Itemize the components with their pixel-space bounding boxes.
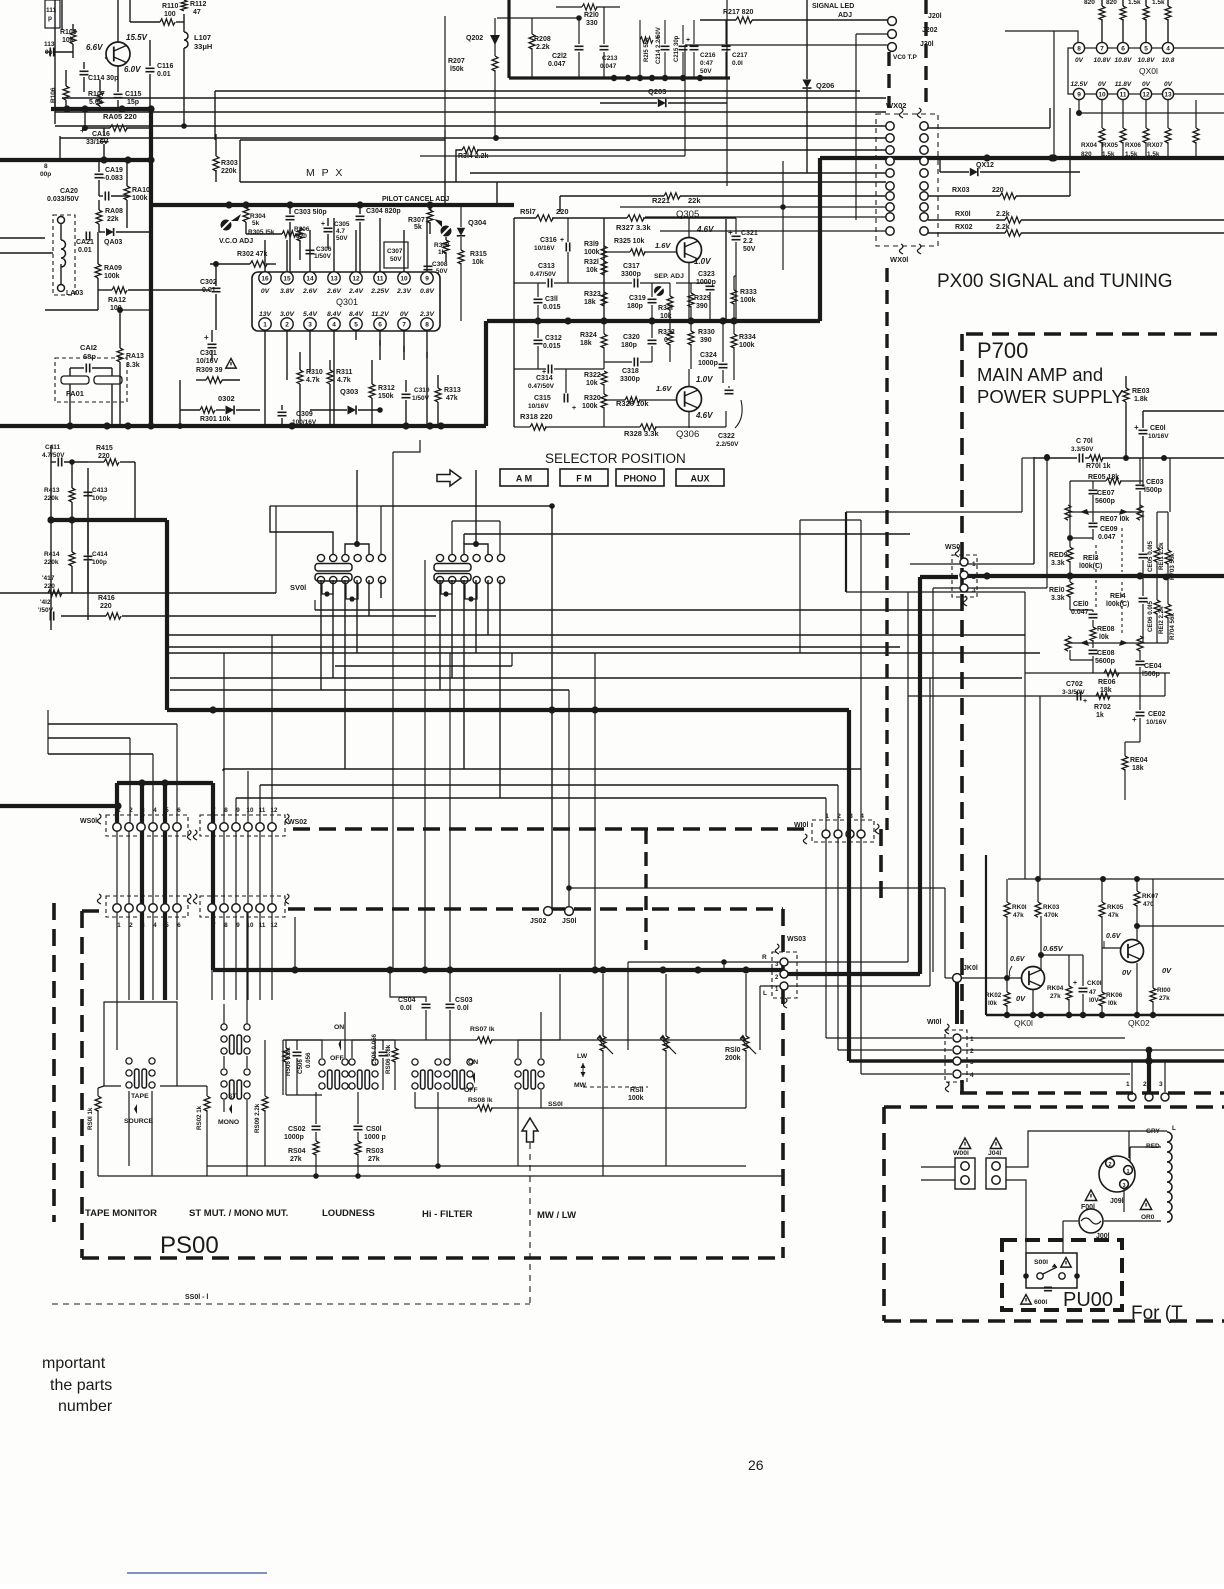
svg-text:QX12: QX12 [976,162,994,169]
svg-text:113: 113 [44,41,55,48]
svg-text:4.6V: 4.6V [695,411,713,420]
svg-text:220k: 220k [44,559,59,566]
svg-text:9: 9 [425,276,429,283]
svg-text:CS03: CS03 [455,997,473,1004]
svg-text:0.056: 0.056 [305,1052,312,1068]
svg-text:18k: 18k [584,299,596,306]
svg-text:JS0l: JS0l [562,918,576,925]
svg-text:10.8V: 10.8V [1115,57,1133,64]
svg-text:R309 39: R309 39 [196,367,223,374]
svg-text:1.8k: 1.8k [1134,396,1148,403]
svg-text:220k: 220k [221,168,237,175]
svg-text:REl1 2.2k: REl1 2.2k [1158,542,1165,570]
svg-text:220: 220 [100,603,112,610]
svg-text:R320: R320 [584,395,601,402]
svg-text:RS06 6.8k: RS06 6.8k [385,1044,392,1074]
svg-text:6.0V: 6.0V [124,65,141,74]
svg-text:0.0l: 0.0l [732,60,743,67]
svg-text:10: 10 [400,276,408,283]
svg-text:2.6V: 2.6V [326,288,342,295]
svg-text:+: + [1134,423,1139,432]
svg-text:l0k: l0k [1099,634,1109,641]
svg-text:SIGNAL LED: SIGNAL LED [812,3,854,10]
svg-text:C216: C216 [700,52,716,59]
svg-text:C414: C414 [92,551,108,558]
svg-text:ON: ON [334,1024,344,1031]
svg-text:11.2V: 11.2V [371,311,390,318]
svg-text:C317: C317 [623,263,640,270]
svg-text:180p: 180p [621,342,637,349]
svg-text:Q206: Q206 [816,81,834,90]
svg-text:3.3k: 3.3k [1051,595,1065,602]
svg-text:1: 1 [970,1036,974,1043]
svg-text:5k: 5k [252,220,260,227]
svg-text:C315: C315 [534,395,551,402]
svg-text:RA10: RA10 [132,187,150,194]
svg-text:100k: 100k [584,249,600,256]
svg-text:WS03: WS03 [787,936,806,943]
svg-text:C324: C324 [700,352,717,359]
svg-text:100: 100 [164,11,176,18]
svg-text:7: 7 [402,322,406,329]
svg-text:1/50V: 1/50V [412,395,430,402]
svg-text:WS02: WS02 [288,819,307,826]
svg-text:RE07 l0k: RE07 l0k [1100,516,1129,523]
svg-text:LA03: LA03 [66,290,83,297]
svg-text:CS0l: CS0l [366,1126,382,1133]
svg-text:100k: 100k [582,403,598,410]
svg-text:ADJ: ADJ [838,12,852,19]
svg-text:50V: 50V [743,246,756,253]
svg-text:100p: 100p [92,559,107,566]
svg-text:l500p: l500p [1144,487,1162,494]
svg-text:1000p: 1000p [284,1134,304,1141]
svg-text:R208: R208 [534,36,551,43]
svg-text:RA12: RA12 [108,297,126,304]
svg-text:27k: 27k [1050,993,1061,1000]
svg-text:L: L [763,990,767,997]
svg-text:0.6V: 0.6V [1010,956,1026,963]
svg-text:5: 5 [165,922,169,929]
svg-text:3.3/50V: 3.3/50V [1071,446,1094,453]
svg-text:RK06: RK06 [1106,992,1123,999]
svg-text:RX03: RX03 [952,187,970,194]
svg-text:CA21: CA21 [76,239,94,246]
svg-text:F M: F M [576,474,592,484]
svg-text:+: + [204,333,209,342]
svg-text:MW / LW: MW / LW [537,1210,576,1221]
svg-text:R301 10k: R301 10k [200,416,230,423]
svg-text:Rl00: Rl00 [1157,987,1171,994]
svg-text:4: 4 [1166,46,1170,53]
svg-text:RE05 18k: RE05 18k [1088,474,1119,481]
svg-text:CS04: CS04 [398,997,416,1004]
svg-text:C316: C316 [540,237,557,244]
svg-text:CEl0: CEl0 [1073,601,1089,608]
svg-text:l0k: l0k [988,1000,997,1007]
svg-text:6: 6 [177,807,181,814]
svg-text:L107: L107 [194,33,211,42]
svg-text:1000 p: 1000 p [364,1134,386,1141]
svg-text:L: L [1172,1125,1176,1132]
svg-text:+: + [728,228,733,237]
svg-text:the parts: the parts [50,1377,112,1394]
svg-text:+: + [1073,980,1077,987]
svg-text:C 70l: C 70l [1076,438,1093,445]
svg-text:15p: 15p [127,99,139,106]
svg-text:C305: C305 [334,221,350,228]
svg-text:8: 8 [1077,46,1081,53]
svg-text:6: 6 [177,922,181,929]
svg-text:7: 7 [212,807,216,814]
svg-text:22k: 22k [107,216,119,223]
svg-text:50V: 50V [336,235,348,242]
svg-text:3: 3 [1159,1081,1163,1088]
svg-text:10.8V: 10.8V [1094,57,1112,64]
svg-text:R2l0: R2l0 [584,12,599,19]
svg-text:2.25V: 2.25V [370,288,390,295]
svg-text:R312: R312 [378,385,395,392]
svg-text:SELECTOR POSITION: SELECTOR POSITION [545,451,686,466]
svg-text:+: + [572,405,576,412]
svg-text:R5l7: R5l7 [520,207,536,216]
svg-text:0.047: 0.047 [548,61,566,68]
svg-text:3.0V: 3.0V [280,311,295,318]
svg-text:CAI2: CAI2 [80,343,97,352]
svg-text:1.5k: 1.5k [1147,151,1160,158]
svg-text:R307: R307 [408,217,425,224]
svg-text:REl4: REl4 [1110,593,1126,600]
svg-text:C217: C217 [732,52,748,59]
svg-text:18k: 18k [580,340,592,347]
svg-text:PX00 SIGNAL and TUNING: PX00 SIGNAL and TUNING [937,271,1173,292]
svg-text:AUX: AUX [690,474,709,484]
svg-text:11.8V: 11.8V [1115,81,1132,88]
svg-text:number: number [58,1398,113,1415]
svg-text:R303: R303 [221,160,238,167]
svg-text:1.5k: 1.5k [1128,0,1141,6]
svg-text:2: 2 [1108,1162,1111,1168]
svg-text:3300p: 3300p [621,271,641,278]
svg-text:+: + [656,35,660,42]
svg-text:1.5k: 1.5k [1125,151,1138,158]
svg-text:4: 4 [332,322,336,329]
svg-text:2.6V: 2.6V [302,288,318,295]
svg-text:8: 8 [44,163,48,170]
svg-text:MAIN AMP and: MAIN AMP and [977,364,1103,385]
svg-text:10: 10 [1098,92,1106,99]
svg-text:10k: 10k [586,380,598,387]
svg-text:47: 47 [193,9,201,16]
svg-text:R702: R702 [1094,704,1111,711]
svg-text:13: 13 [1164,92,1172,99]
svg-text:S00l: S00l [1034,1259,1048,1266]
svg-text:820: 820 [1106,0,1117,6]
svg-text:CA20: CA20 [60,188,78,195]
svg-text:J09l: J09l [1110,1198,1124,1205]
svg-text:R302 47k: R302 47k [237,251,267,258]
svg-text:0.47/50V: 0.47/50V [528,383,555,390]
svg-text:RK05: RK05 [1107,904,1124,911]
svg-text:CE06 0.0l5: CE06 0.0l5 [1147,600,1154,632]
svg-text:OR0: OR0 [1141,1214,1155,1221]
svg-text:C304 820p: C304 820p [366,208,401,215]
svg-text:OFF: OFF [330,1055,344,1062]
svg-text:Q301: Q301 [336,297,358,307]
svg-text:RSl0: RSl0 [725,1047,741,1054]
svg-text:RK07: RK07 [1142,893,1159,900]
svg-text:5.4V: 5.4V [303,311,318,318]
svg-text:C2l2: C2l2 [552,53,567,60]
svg-text:R207: R207 [448,58,465,65]
svg-text:C306: C306 [316,246,332,253]
svg-text:ON: ON [468,1059,478,1066]
svg-text:RX02: RX02 [955,224,973,231]
svg-text:CA16: CA16 [92,131,110,138]
svg-text:3: 3 [308,322,312,329]
svg-text:0.015: 0.015 [543,343,561,350]
svg-text:RA13: RA13 [126,353,144,360]
svg-text:22k: 22k [688,196,701,205]
svg-text:R415: R415 [96,445,113,452]
svg-text:100k: 100k [104,273,120,280]
svg-text:0V: 0V [1075,57,1084,64]
svg-text:0.8V: 0.8V [420,288,435,295]
svg-text:R112: R112 [190,1,206,8]
svg-text:+: + [80,126,85,135]
svg-text:8.4V: 8.4V [327,311,342,318]
svg-text:1: 1 [117,922,121,929]
svg-text:C313: C313 [538,263,555,270]
svg-text:7: 7 [1100,46,1104,53]
svg-text:47k: 47k [1013,912,1024,919]
svg-text:R413: R413 [44,487,60,494]
svg-text:RS08 lk: RS08 lk [468,1097,493,1104]
svg-text:8.4V: 8.4V [349,311,364,318]
svg-text:C318: C318 [622,368,639,375]
svg-text:3: 3 [970,1059,974,1066]
svg-text:0.65V: 0.65V [1043,944,1064,953]
svg-text:R324: R324 [580,332,597,339]
svg-text:470k: 470k [1044,912,1059,919]
svg-text:C411: C411 [45,444,61,451]
svg-text:WI0l: WI0l [927,1019,941,1026]
svg-text:VC0 T.P: VC0 T.P [893,54,918,61]
svg-text:C302: C302 [200,279,217,286]
svg-text:4.7k: 4.7k [337,377,351,384]
svg-text:C506: C506 [297,1059,304,1074]
svg-text:Q306: Q306 [676,429,699,440]
svg-text:5: 5 [354,322,358,329]
svg-text:+: + [1132,715,1137,724]
svg-text:2.2k: 2.2k [996,224,1010,231]
svg-text:TAPE: TAPE [131,1093,149,1100]
svg-text:1: 1 [263,322,267,329]
svg-text:0V: 0V [1016,994,1026,1003]
svg-text:RA08: RA08 [105,208,123,215]
svg-text:RE03: RE03 [1132,388,1150,395]
svg-text:5k: 5k [414,224,422,231]
svg-text:JS02: JS02 [530,918,546,925]
svg-text:M P X: M P X [306,167,344,179]
svg-text:9: 9 [236,807,240,814]
svg-text:A M: A M [516,474,532,484]
svg-text:16: 16 [261,276,269,283]
svg-text:REl0: REl0 [1049,587,1065,594]
svg-text:'417: '417 [42,575,55,582]
svg-text:0V: 0V [261,288,271,295]
svg-text:111: 111 [46,7,57,14]
svg-text:C307: C307 [387,248,403,255]
svg-text:RX05: RX05 [1102,142,1118,149]
svg-text:LW: LW [577,1053,588,1060]
svg-text:LOUDNESS: LOUDNESS [322,1208,375,1219]
svg-text:CE04: CE04 [1144,663,1162,670]
svg-text:TAPE MONITOR: TAPE MONITOR [85,1208,157,1219]
svg-text:R334: R334 [739,334,756,341]
svg-text:11: 11 [1120,92,1127,99]
svg-text:RS04: RS04 [288,1148,306,1155]
svg-text:0.01: 0.01 [78,247,92,254]
svg-text:Q303: Q303 [340,387,358,396]
svg-text:QK0l: QK0l [1014,1018,1033,1028]
svg-text:QA03: QA03 [104,239,122,246]
svg-text:0.01: 0.01 [157,71,171,78]
svg-text:RE04: RE04 [1130,757,1148,764]
svg-text:12: 12 [352,276,360,283]
svg-text:1/50V: 1/50V [314,253,332,260]
svg-text:Q202: Q202 [466,35,483,42]
svg-text:8: 8 [425,322,429,329]
svg-text:10k: 10k [586,267,598,274]
svg-text:RE08: RE08 [1097,626,1115,633]
svg-text:220: 220 [556,207,569,216]
svg-text:0302: 0302 [218,394,235,403]
svg-text:13V: 13V [259,311,273,318]
svg-text:ST MUT. / MONO MUT.: ST MUT. / MONO MUT. [189,1208,288,1219]
svg-text:RS09 2.2k: RS09 2.2k [254,1103,261,1133]
svg-text:l00k(C): l00k(C) [1106,601,1129,608]
svg-text:27k: 27k [368,1156,380,1163]
svg-text:15.5V: 15.5V [126,33,148,42]
svg-text:Q304: Q304 [468,218,487,227]
svg-text:RE06: RE06 [1098,679,1116,686]
svg-text:C114 30p: C114 30p [88,75,118,82]
svg-text:47k: 47k [446,395,458,402]
svg-text:1: 1 [1126,1169,1129,1175]
svg-text:l0V: l0V [1089,997,1099,1004]
svg-text:C301: C301 [200,350,217,357]
svg-text:5600p: 5600p [1095,498,1115,505]
svg-text:1.5k: 1.5k [1102,151,1115,158]
svg-text:R330: R330 [698,329,715,336]
svg-text:0V: 0V [400,311,410,318]
svg-text:R313: R313 [444,387,461,394]
svg-text:RX04: RX04 [1081,142,1097,149]
svg-text:C312: C312 [545,335,562,342]
svg-text:R32l: R32l [584,259,599,266]
svg-text:1: 1 [1126,1081,1130,1088]
svg-text:3: 3 [141,922,145,929]
svg-text:R704 56k: R704 56k [1169,613,1176,640]
svg-text:R327 3.3k: R327 3.3k [616,223,651,232]
svg-text:5: 5 [165,807,169,814]
svg-text:FA01: FA01 [66,389,84,398]
svg-text:10.8V: 10.8V [1138,57,1156,64]
svg-text:100/16V: 100/16V [292,419,317,426]
svg-text:10k: 10k [472,259,484,266]
svg-text:15: 15 [283,276,291,283]
svg-text:3.3k: 3.3k [1051,560,1065,567]
svg-text:0V: 0V [1162,966,1172,975]
svg-text:R315: R315 [470,251,487,258]
svg-text:RS03: RS03 [366,1148,384,1155]
svg-text:0:47: 0:47 [700,60,713,67]
svg-text:600l: 600l [1034,1299,1047,1306]
svg-text:QK02: QK02 [1128,1018,1150,1028]
svg-text:QX0l: QX0l [1139,66,1158,76]
svg-text:4: 4 [153,807,157,814]
svg-text:10/16V: 10/16V [1146,719,1167,726]
svg-text:100k: 100k [739,342,755,349]
svg-text:6.6V: 6.6V [86,43,103,52]
svg-text:R106: R106 [50,87,57,103]
svg-text:9: 9 [236,922,240,929]
svg-text:RA09: RA09 [104,265,122,272]
svg-text:C303 5l0p: C303 5l0p [294,209,327,216]
svg-text:7: 7 [212,922,216,929]
svg-text:0.0l: 0.0l [400,1005,412,1012]
svg-text:C115: C115 [125,91,141,98]
svg-text:R416: R416 [98,595,115,602]
svg-text:4.7: 4.7 [336,228,345,235]
svg-text:CK0l: CK0l [1087,980,1102,987]
svg-text:2.2: 2.2 [743,238,753,245]
svg-text:RS07 lk: RS07 lk [470,1026,495,1033]
svg-text:00p: 00p [40,171,51,178]
svg-text:50V: 50V [700,68,712,75]
svg-text:10/16V: 10/16V [1148,433,1169,440]
svg-text:Hi - FILTER: Hi - FILTER [422,1209,473,1220]
svg-text:+: + [321,221,325,228]
svg-text:R323: R323 [584,291,601,298]
svg-text:J04l: J04l [988,1150,1001,1157]
svg-text:820: 820 [1084,0,1095,6]
svg-text:0.047: 0.047 [1098,534,1116,541]
svg-text:R310: R310 [306,369,323,376]
svg-text:390: 390 [700,337,712,344]
svg-text:+: + [542,369,546,376]
svg-text:PILOT CANCEL ADJ: PILOT CANCEL ADJ [382,196,449,203]
svg-text:1.6V: 1.6V [655,241,671,250]
svg-text:+: + [560,237,564,244]
svg-text:MW: MW [574,1082,587,1089]
svg-text:8: 8 [224,922,228,929]
svg-text:C308: C308 [432,261,448,268]
svg-text:SS0l: SS0l [548,1101,563,1108]
svg-text:C702: C702 [1066,681,1083,688]
svg-text:For (T: For (T [1131,1303,1183,1324]
svg-text:'/50V: '/50V [38,607,54,614]
svg-text:14: 14 [306,276,314,283]
svg-text:PU00: PU00 [1063,1289,1113,1311]
svg-text:SV0l: SV0l [290,583,306,592]
svg-text:3.3k: 3.3k [126,362,140,369]
svg-text:SEP. ADJ: SEP. ADJ [654,273,684,280]
svg-text:+: + [1083,698,1087,705]
svg-text:R305 l5k: R305 l5k [248,229,275,236]
svg-text:R329: R329 [694,295,711,302]
